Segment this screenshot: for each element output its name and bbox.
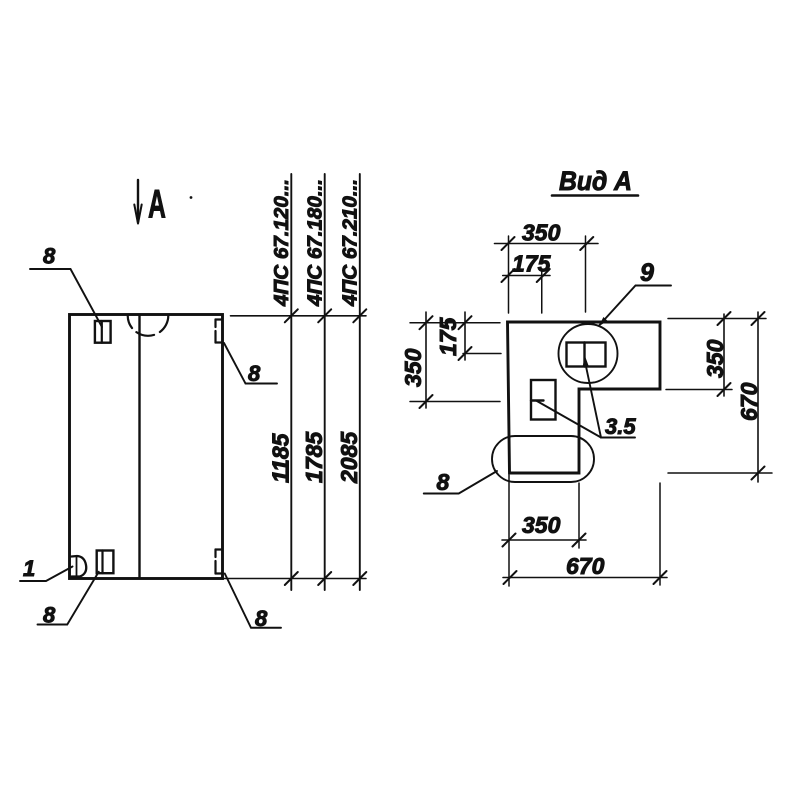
svg-text:350: 350: [522, 220, 561, 246]
svg-text:4ПС 67.210...: 4ПС 67.210...: [339, 179, 362, 307]
svg-text:9: 9: [640, 259, 654, 287]
svg-text:350: 350: [702, 339, 728, 378]
svg-text:2085: 2085: [336, 431, 362, 484]
svg-text:Вид А: Вид А: [559, 166, 632, 196]
svg-text:8: 8: [437, 469, 450, 495]
svg-text:670: 670: [736, 382, 762, 421]
svg-text:8: 8: [255, 606, 268, 631]
svg-text:4ПС 67.120...: 4ПС 67.120...: [270, 179, 293, 307]
svg-text:350: 350: [522, 512, 561, 538]
svg-text:4ПС 67.180...: 4ПС 67.180...: [304, 179, 327, 307]
svg-text:1185: 1185: [268, 432, 294, 483]
svg-text:A: A: [148, 183, 166, 227]
svg-text:8: 8: [43, 603, 56, 628]
svg-text:3.5: 3.5: [605, 414, 636, 439]
svg-text:8: 8: [248, 361, 261, 386]
svg-text:175: 175: [512, 251, 552, 277]
svg-text:670: 670: [566, 553, 605, 579]
svg-text:8: 8: [43, 244, 56, 269]
svg-text:1785: 1785: [301, 431, 327, 483]
svg-text:175: 175: [435, 316, 461, 356]
svg-text:1: 1: [23, 556, 35, 581]
svg-text:350: 350: [400, 348, 426, 387]
